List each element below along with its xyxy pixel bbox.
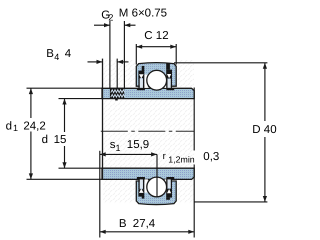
G2 dimension arrows (94, 23, 136, 27)
svg-text:r: r (163, 151, 166, 162)
seal bottom-right (166, 177, 174, 200)
D bottom extension (194, 201, 267, 203)
svg-text:2: 2 (108, 13, 113, 23)
d1 dimension line (29, 88, 33, 179)
D top extension (174, 62, 267, 64)
svg-text:27,4: 27,4 (133, 218, 156, 230)
seal top-right (166, 63, 174, 90)
outer ring bottom (136, 181, 176, 205)
inner ring top bar (102, 88, 194, 98)
B4 right extension (116, 59, 118, 88)
seal top-left (137, 66, 145, 90)
housing faint hatch lower (103, 180, 136, 203)
svg-text:4: 4 (65, 48, 72, 60)
svg-text:1,2min: 1,2min (168, 155, 195, 165)
G2 left extension (109, 21, 111, 88)
setscrew hole with thread (110, 88, 125, 101)
svg-text:15: 15 (54, 134, 67, 146)
s1 dimension line (100, 152, 157, 156)
top raceway white gaps beside ball (144, 75, 148, 88)
ball top (147, 70, 167, 90)
svg-text:B: B (46, 48, 54, 60)
B4 dimension arrows (88, 60, 129, 64)
right face / shaft extension (193, 88, 195, 151)
D dimension line (263, 63, 267, 202)
svg-text:B: B (119, 218, 127, 230)
inner ring bottom bar (102, 168, 194, 179)
ball bottom (147, 177, 167, 197)
svg-text:1: 1 (13, 123, 18, 133)
d1 top extension (27, 87, 103, 89)
C left extension (135, 44, 137, 65)
seal bottom-left (137, 177, 145, 199)
d top extension (59, 98, 103, 100)
svg-text:4: 4 (54, 52, 59, 62)
extension line: inner ring left face / shaft end (B4 left) (102, 59, 104, 179)
svg-text:M 6×0.75: M 6×0.75 (119, 8, 167, 20)
d bottom extension (59, 167, 103, 169)
C dimension line (136, 45, 176, 49)
shaft section faint hatch (103, 99, 194, 167)
svg-text:d: d (42, 134, 48, 146)
svg-text:0,3: 0,3 (203, 151, 219, 163)
bottom raceway white gaps beside ball (144, 179, 148, 192)
s1 center line (156, 154, 158, 197)
svg-text:15,9: 15,9 (127, 139, 149, 151)
svg-text:24,2: 24,2 (23, 120, 45, 132)
svg-text:C 12: C 12 (144, 30, 168, 42)
B dimension line (100, 230, 194, 234)
shaft center line (101, 130, 195, 132)
svg-text:D 40: D 40 (252, 124, 276, 136)
extension line: B and s1 left reference (99, 151, 101, 238)
C right extension (175, 44, 177, 65)
svg-text:d: d (6, 120, 12, 132)
housing faint hatch upper (103, 60, 136, 87)
d dimension line (62, 99, 66, 169)
outer ring top (136, 63, 176, 87)
G2 right extension (123, 21, 125, 88)
svg-text:1: 1 (116, 143, 121, 153)
d1 bottom extension (27, 178, 103, 180)
